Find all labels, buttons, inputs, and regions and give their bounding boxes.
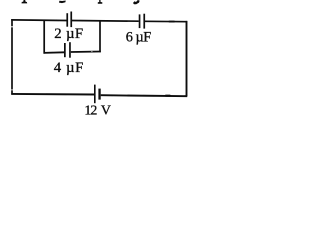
capacitor C2 6uF plates xyxy=(139,14,141,28)
wire right vertical xyxy=(186,21,188,97)
wire top left segment xyxy=(11,19,66,22)
cropped text remnant mark 3 xyxy=(98,0,103,4)
wire top right segment xyxy=(145,20,187,22)
svg-text:2 µF: 2 µF xyxy=(54,26,83,42)
wire bottom right segment xyxy=(101,95,188,96)
wire top middle segment xyxy=(72,20,139,23)
cropped text remnant mark 4 xyxy=(133,0,140,4)
wire left vertical xyxy=(11,19,13,94)
wire nick on lower branch xyxy=(91,50,93,53)
ink blob on top wire xyxy=(169,21,176,23)
ink blob on bottom wire xyxy=(165,95,171,97)
svg-text:6 µF: 6 µF xyxy=(126,30,151,46)
cropped text remnant mark 1 xyxy=(22,0,28,3)
capacitor C1 2uF plates xyxy=(66,13,68,27)
svg-text:4 µF: 4 µF xyxy=(54,60,84,76)
node B vertical (right branch rise) xyxy=(99,21,101,52)
wire bottom left segment xyxy=(11,93,94,96)
wire nick on left vertical lower xyxy=(11,89,13,90)
svg-text:12 V: 12 V xyxy=(84,104,111,119)
cropped text remnant mark 2 xyxy=(59,1,66,4)
battery B1 positive plate (long) xyxy=(94,85,96,104)
wire lower branch right segment xyxy=(71,51,101,54)
battery B1 negative plate (short thick) xyxy=(98,89,100,100)
wire lower branch left segment xyxy=(44,51,65,54)
wire nick on left vertical xyxy=(11,26,13,27)
capacitor C3 4uF plates xyxy=(64,43,66,57)
node A vertical (left branch drop) xyxy=(43,20,45,54)
